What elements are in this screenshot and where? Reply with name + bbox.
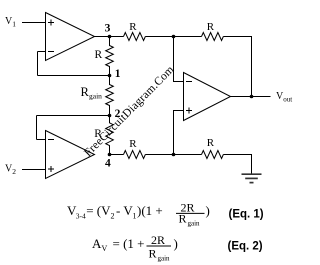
resistor R (bottom first) bbox=[124, 151, 146, 159]
wire U2 feedback vertical bbox=[36, 116, 38, 140]
svg-text:2R: 2R bbox=[151, 233, 165, 247]
wire U2 feedback to node 2 bbox=[37, 115, 110, 117]
svg-text:(Eq. 2): (Eq. 2) bbox=[228, 241, 263, 253]
resistor Rgain bbox=[106, 76, 114, 116]
svg-text:= (V: = (V bbox=[86, 203, 111, 218]
equation Eq.1 fraction bar bbox=[176, 212, 205, 214]
equation Eq.2 fraction bar bbox=[147, 245, 172, 247]
svg-text:= (1 +: = (1 + bbox=[113, 236, 145, 251]
U1 plus symbol bbox=[48, 20, 54, 26]
svg-text:R: R bbox=[149, 246, 157, 260]
U3 plus symbol bbox=[186, 108, 192, 114]
svg-text:3: 3 bbox=[105, 23, 111, 35]
node 2 bbox=[108, 114, 112, 118]
resistor R (top first) bbox=[124, 33, 146, 41]
wire node4 to bottom R lead bbox=[110, 154, 124, 156]
svg-text:): ) bbox=[206, 203, 210, 218]
svg-text:4: 4 bbox=[105, 157, 111, 169]
wire top resistor to right corner and down bbox=[223, 37, 251, 97]
svg-text:R: R bbox=[95, 49, 103, 61]
svg-text:R: R bbox=[207, 137, 215, 149]
op-amp U2 bbox=[46, 131, 95, 179]
U2 plus symbol bbox=[48, 166, 54, 172]
label Rgain bbox=[81, 85, 103, 101]
ground bbox=[242, 174, 262, 182]
svg-text:gain: gain bbox=[158, 254, 171, 262]
svg-text:)(1 +: )(1 + bbox=[137, 203, 163, 218]
resistor R (bottom second) bbox=[202, 151, 224, 159]
resistor R (node2-node4) bbox=[106, 116, 114, 155]
svg-text:out: out bbox=[283, 96, 292, 104]
svg-text:gain: gain bbox=[188, 220, 201, 228]
op-amp U1 bbox=[46, 13, 95, 61]
equation Eq.2 bbox=[92, 233, 178, 262]
svg-text:R: R bbox=[129, 138, 137, 150]
op-amp U3 bbox=[184, 73, 231, 121]
wire U1 feedback to node 1 bbox=[38, 75, 110, 77]
wire U3 + drop to bottom wire bbox=[174, 111, 184, 155]
node 4 bbox=[108, 153, 112, 157]
svg-text:1: 1 bbox=[133, 212, 137, 221]
node 1 bbox=[108, 74, 112, 78]
junction node at top (to U3 -) bbox=[172, 35, 176, 39]
wire U2 - input stub bbox=[37, 139, 46, 141]
equation Eq.1 bbox=[67, 201, 210, 228]
svg-text:R: R bbox=[94, 128, 102, 140]
svg-text:A: A bbox=[92, 236, 102, 251]
U1 minus symbol bbox=[48, 51, 54, 53]
wire bottom resistor to ground corner bbox=[223, 155, 251, 175]
svg-text:2: 2 bbox=[12, 167, 16, 176]
svg-text:V: V bbox=[102, 244, 108, 253]
svg-text:- V: - V bbox=[116, 203, 133, 218]
label V1 bbox=[5, 16, 16, 29]
wire U3 - drop from top wire bbox=[174, 37, 184, 82]
wire U1 output to node 3 bbox=[95, 36, 110, 38]
svg-text:2: 2 bbox=[111, 212, 115, 221]
junction node at bottom (to U3 +) bbox=[172, 153, 176, 157]
wire V1 to U1 + input bbox=[22, 22, 46, 24]
node 3 bbox=[108, 35, 112, 39]
svg-text:3-4: 3-4 bbox=[76, 212, 86, 221]
wire U1 feedback vertical bbox=[37, 52, 39, 76]
label V2 bbox=[5, 164, 16, 177]
svg-text:R: R bbox=[207, 21, 215, 33]
label Vout bbox=[276, 91, 292, 104]
wire U1 - input stub bbox=[38, 51, 46, 53]
wire between bottom resistors bbox=[145, 154, 201, 156]
resistor R (node3-node1) bbox=[106, 37, 114, 76]
wire node3 to R top lead bbox=[110, 36, 124, 38]
svg-text:gain: gain bbox=[89, 92, 102, 101]
svg-text:): ) bbox=[174, 236, 178, 251]
svg-text:R: R bbox=[129, 21, 137, 33]
svg-text:1: 1 bbox=[115, 68, 121, 80]
svg-text:2: 2 bbox=[115, 108, 121, 120]
svg-text:(Eq. 1): (Eq. 1) bbox=[229, 208, 264, 220]
U3 minus symbol bbox=[186, 81, 192, 83]
resistor R (top second) bbox=[202, 33, 224, 41]
wire V2 to U2 + input bbox=[22, 169, 46, 171]
svg-text:1: 1 bbox=[12, 20, 16, 29]
wire between top resistors bbox=[145, 36, 201, 38]
node output feedback junction bbox=[250, 95, 254, 99]
U2 minus symbol bbox=[48, 139, 54, 141]
wire U3 output bbox=[231, 96, 271, 98]
